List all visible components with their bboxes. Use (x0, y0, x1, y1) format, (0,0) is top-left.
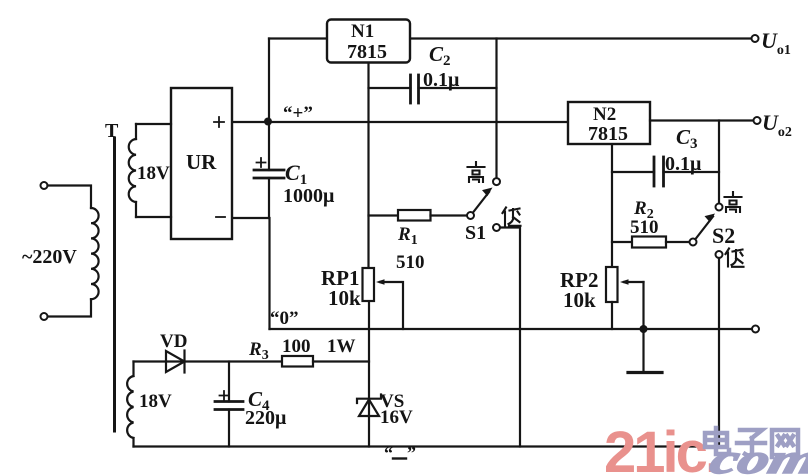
capacitor C1 (254, 122, 284, 219)
wire UR minus output down to 0 rail (232, 218, 270, 329)
svg-text:VD: VD (160, 331, 187, 352)
svg-text:18V: 18V (139, 391, 172, 412)
svg-text:1000μ: 1000μ (283, 185, 335, 207)
svg-text:100: 100 (282, 336, 311, 357)
svg-text:0.1μ: 0.1μ (665, 153, 702, 175)
regulator N1 box (327, 20, 410, 269)
svg-text:C2: C2 (429, 42, 451, 69)
switch S1 low contact (493, 224, 500, 231)
switch S1 high contact (493, 178, 500, 185)
svg-text:1W: 1W (327, 336, 356, 357)
wire upper terminal to primary winding (48, 186, 92, 209)
svg-text:S2: S2 (712, 223, 735, 248)
label high (S1) chinese (468, 162, 485, 182)
output terminal Uo2 (754, 117, 761, 124)
potentiometer RP2 (606, 267, 644, 329)
svg-text:510: 510 (630, 217, 659, 238)
capacitor C3 (612, 157, 719, 186)
wire vertical from top rail down to + node (268, 39, 270, 122)
svg-text:220μ: 220μ (245, 407, 287, 429)
svg-text:C1: C1 (285, 160, 307, 188)
svg-text:Uo1: Uo1 (761, 28, 791, 58)
wire from top rail down to S1 high contact (495, 39, 497, 179)
output terminal Uo1 (752, 35, 759, 42)
watermark dianziwang chinese gray (705, 428, 798, 457)
node minus label (384, 443, 416, 463)
label low (S1) chinese (503, 208, 521, 226)
transformer primary winding (91, 208, 99, 299)
wire primary winding to lower terminal (48, 299, 92, 316)
switch S2 arm with arrow (696, 214, 716, 240)
switch S2 low contact (716, 251, 723, 258)
svg-text:510: 510 (396, 252, 425, 273)
switch S2 common contact (690, 239, 697, 246)
capacitor C4 (215, 362, 243, 447)
wire S1 low contact down to bottom rail (500, 228, 520, 447)
svg-text:“: “ (384, 443, 393, 463)
UR minus pin mark (216, 216, 225, 218)
wire N2 output down to S2 high contact (718, 121, 720, 204)
svg-text:N2: N2 (593, 104, 616, 125)
label high (S2) chinese (725, 192, 742, 212)
switch S2 high contact (716, 204, 723, 211)
svg-text:T: T (105, 120, 119, 142)
output terminal common (752, 326, 759, 333)
svg-text:R3: R3 (248, 339, 269, 363)
transformer secondary winding 18V lower (132, 362, 134, 447)
capacitor C2 (369, 75, 497, 103)
label low (S2) chinese (726, 249, 744, 267)
transformer core (113, 138, 116, 431)
svg-text:7815: 7815 (588, 123, 628, 145)
svg-text:7815: 7815 (347, 41, 387, 63)
svg-text:21ic.: 21ic. (604, 420, 718, 475)
svg-text:C3: C3 (676, 125, 698, 152)
wire + rail from UR to N2 input (232, 121, 568, 123)
svg-text:“0”: “0” (270, 308, 299, 329)
svg-text:com: com (706, 435, 808, 475)
zener diode VS (357, 301, 381, 447)
node + junction dot (264, 118, 272, 126)
svg-text:R1: R1 (397, 224, 418, 248)
potentiometer RP1 (363, 268, 404, 329)
primary input terminal upper (41, 182, 48, 189)
wire lower winding to VD anode (134, 360, 167, 362)
resistor R3 (282, 356, 313, 367)
switch S1 arm with arrow (473, 188, 493, 213)
UR plus pin mark (214, 117, 224, 127)
wire N2 output to Uo2 terminal (650, 119, 754, 121)
wire bottom minus rail (134, 445, 720, 447)
wire 0 rail to right terminal (270, 328, 752, 330)
diode VD (166, 351, 282, 373)
svg-text:~220V: ~220V (22, 246, 77, 268)
ground symbol (628, 329, 662, 373)
wire secondary winding 1 to UR inputs (136, 124, 171, 217)
primary input terminal lower (41, 313, 48, 320)
wire S2 low contact down to bottom rail (718, 258, 720, 447)
svg-text:Uo2: Uo2 (762, 110, 792, 140)
resistor R2 (612, 237, 690, 248)
svg-text:”: ” (407, 443, 416, 463)
svg-text:S1: S1 (465, 222, 486, 244)
wire top rail from node + up-corner to Uo1 terminal (269, 37, 752, 39)
junction dot ground node (640, 325, 648, 333)
svg-text:10k: 10k (328, 286, 361, 310)
svg-text:“+”: “+” (283, 103, 313, 124)
svg-text:10k: 10k (563, 288, 596, 312)
svg-text:18V: 18V (137, 163, 170, 184)
resistor R1 (369, 210, 468, 221)
regulator N2 box (568, 102, 650, 267)
switch S1 common contact (467, 212, 474, 219)
svg-text:UR: UR (186, 150, 217, 174)
transformer secondary winding 18V upper (135, 124, 137, 217)
svg-text:0.1μ: 0.1μ (423, 69, 460, 91)
svg-text:16V: 16V (380, 407, 413, 428)
bridge rectifier UR box (171, 88, 232, 239)
svg-text:N1: N1 (351, 21, 374, 42)
